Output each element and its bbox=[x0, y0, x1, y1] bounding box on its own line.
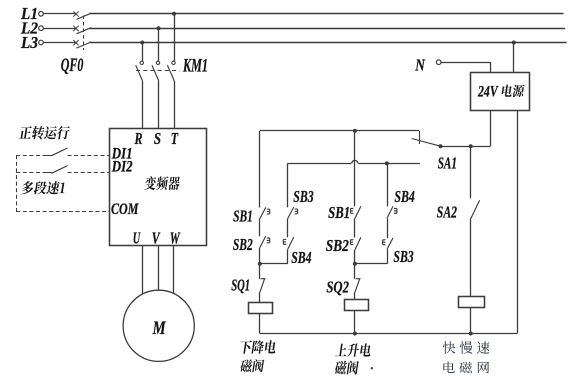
junction SA1 pivot bbox=[439, 144, 443, 148]
wire L1 tap down bbox=[174, 14, 176, 61]
contactor KM1 terminal x158.5 bbox=[156, 61, 159, 64]
breaker QF0 contact L2 bbox=[73, 26, 78, 31]
svg-text:SA1: SA1 bbox=[438, 153, 457, 172]
pushbutton SB1 (g2) bbox=[351, 206, 361, 218]
junction L3 to supply bbox=[512, 41, 516, 45]
label 上升电 bbox=[335, 343, 371, 357]
contactor KM1 terminal x142.3 bbox=[140, 61, 143, 64]
svg-text:N: N bbox=[415, 56, 426, 75]
label 磁阀 (descend) bbox=[240, 359, 264, 372]
junction L3 tap bbox=[140, 41, 144, 45]
wire g1 join bbox=[260, 263, 288, 265]
svg-text:SB2: SB2 bbox=[233, 235, 253, 254]
wire DI1 pivot bbox=[44, 155, 52, 157]
junction L2 tap bbox=[157, 26, 161, 30]
svg-text:SB1: SB1 bbox=[328, 203, 350, 222]
wire W to motor bbox=[173, 246, 175, 295]
junction g3 bottom bbox=[469, 332, 473, 336]
wire DI2 dashed right bbox=[68, 172, 110, 174]
wire KM1 to inverter x174 bbox=[174, 81, 176, 129]
terminal N bbox=[436, 60, 441, 65]
wire g2 right col mid bbox=[387, 218, 389, 238]
svg-text:SB4: SB4 bbox=[394, 187, 414, 206]
wire SA1 node bbox=[441, 146, 491, 148]
24V supply box bbox=[471, 73, 530, 111]
svg-text:24V: 24V bbox=[477, 84, 499, 101]
motor M bbox=[123, 290, 194, 361]
wire KM1 to inverter x142.3 bbox=[142, 81, 144, 129]
wire g2 right col low bbox=[387, 249, 389, 263]
wire g2 right col top bbox=[387, 163, 389, 206]
wire g1 to SQ1 bbox=[259, 264, 261, 279]
wire L2 lead-in bbox=[43, 28, 75, 30]
wire common dashed vertical bbox=[16, 155, 18, 212]
svg-text:SQ2: SQ2 bbox=[326, 278, 349, 297]
top control rail bbox=[260, 130, 419, 132]
wire g1 right col top bbox=[287, 163, 289, 207]
terminal L1 bbox=[39, 12, 44, 17]
wire KM1 to inverter x158.5 bbox=[158, 81, 160, 129]
wire COM dashed bbox=[16, 211, 109, 213]
svg-text:W: W bbox=[170, 228, 181, 247]
wire L1 lead-in bbox=[43, 13, 75, 15]
label 正转运行 bbox=[19, 126, 70, 139]
second rail right bbox=[358, 163, 420, 165]
svg-text:SB3: SB3 bbox=[393, 247, 414, 266]
wire DI2 pivot bbox=[44, 172, 52, 174]
svg-text:COM: COM bbox=[111, 201, 139, 218]
wire g2 left col mid bbox=[354, 218, 356, 237]
wire g2 join bbox=[355, 263, 387, 265]
wire 24V right output bbox=[517, 111, 519, 334]
svg-text:SB1: SB1 bbox=[233, 206, 253, 225]
label 电源 bbox=[502, 84, 525, 97]
breaker QF0 blade L3 bbox=[77, 42, 92, 48]
limit switch SQ1 bbox=[260, 279, 266, 293]
label 多段速1 bbox=[21, 181, 65, 194]
wire L3 to 24V box bbox=[513, 43, 515, 73]
svg-text:S: S bbox=[154, 129, 161, 148]
wire V to motor bbox=[158, 246, 160, 291]
coil ascend valve bbox=[345, 300, 369, 311]
wire g1 left col top bbox=[259, 131, 261, 208]
switch SA1 fixed contact bbox=[419, 131, 421, 144]
pushbutton SB4 (g2) bbox=[387, 206, 397, 218]
second rail crossover hop bbox=[352, 160, 358, 163]
label 变频器 bbox=[144, 176, 180, 190]
coil fast-slow valve bbox=[459, 297, 485, 308]
contactor KM1 blade x174 bbox=[167, 65, 174, 81]
terminal L3 bbox=[39, 40, 44, 45]
limit switch SQ2 bbox=[355, 279, 361, 293]
wire DI2 dashed left bbox=[16, 172, 46, 174]
svg-text:R: R bbox=[134, 129, 143, 148]
wire SQ2 to coil bbox=[354, 292, 356, 299]
contactor KM1 terminal x174 bbox=[172, 61, 175, 64]
second rail left bbox=[287, 163, 351, 165]
wire DI1 dashed right bbox=[68, 155, 110, 157]
svg-text:SB3: SB3 bbox=[293, 187, 314, 206]
contactor KM1 linkage bbox=[136, 70, 180, 72]
wire g2 to SQ2 bbox=[354, 264, 356, 279]
stray period mark bbox=[371, 367, 373, 369]
junction g2 columns bbox=[353, 262, 357, 266]
wire L2 bus bbox=[90, 28, 566, 30]
wire g3 col top bbox=[470, 146, 472, 198]
wire L2 tap down bbox=[158, 28, 160, 61]
wire L3 bus bbox=[90, 42, 567, 44]
wire g2 left col low bbox=[354, 250, 356, 264]
breaker QF0 blade L1 bbox=[77, 13, 92, 19]
wire DI1 dashed left bbox=[16, 155, 46, 157]
junction SA2 column tap bbox=[469, 144, 473, 148]
breaker QF0 contact L3 bbox=[73, 40, 78, 45]
wire coil3 to rail bbox=[470, 307, 472, 333]
junction top rail middle column bbox=[353, 129, 357, 133]
junction L1 tap bbox=[172, 12, 176, 16]
contactor KM1 blade x158.5 bbox=[152, 65, 159, 81]
svg-text:M: M bbox=[152, 318, 167, 339]
wire g1 right col low bbox=[287, 249, 289, 263]
label 快慢速 bbox=[443, 341, 490, 354]
pushbutton SB3 (g2) bbox=[383, 238, 393, 250]
junction g2 bottom bbox=[353, 332, 357, 336]
coil descend valve bbox=[249, 303, 273, 314]
svg-text:KM1: KM1 bbox=[182, 56, 208, 76]
wire g3 col low bbox=[470, 219, 472, 297]
bottom return rail bbox=[260, 333, 517, 335]
svg-text:U: U bbox=[133, 228, 141, 247]
wire coil1 to rail bbox=[259, 313, 261, 333]
wire g1 left col mid bbox=[259, 219, 261, 237]
wire coil2 to rail bbox=[354, 310, 356, 333]
switch blade DI2 bbox=[52, 166, 68, 174]
breaker QF0 linkage bbox=[83, 16, 85, 51]
pushbutton SB2 (g1) bbox=[260, 236, 270, 248]
wire g1 left col low bbox=[259, 248, 261, 264]
wire g2 left col top bbox=[354, 131, 356, 207]
switch SA2 blade bbox=[471, 200, 480, 218]
wire L3 lead-in bbox=[43, 42, 75, 44]
svg-text:L3: L3 bbox=[20, 33, 38, 52]
wire U to motor bbox=[142, 246, 144, 295]
breaker QF0 contact L1 bbox=[73, 11, 78, 16]
switch blade DI1 bbox=[52, 148, 68, 156]
pushbutton SB2 (g2) bbox=[351, 237, 361, 250]
breaker QF0 blade L2 bbox=[77, 28, 92, 34]
wire 24V left output bbox=[490, 111, 492, 147]
svg-text:SQ1: SQ1 bbox=[231, 276, 250, 295]
junction second rail right column bbox=[385, 161, 389, 165]
terminal L2 bbox=[39, 26, 44, 31]
wire g1 right col mid bbox=[287, 219, 289, 238]
wire L3 tap down bbox=[142, 43, 144, 62]
wire N to 24V box bbox=[442, 63, 491, 73]
contactor KM1 blade x142.3 bbox=[136, 65, 143, 81]
pushbutton SB4 (g1) bbox=[283, 237, 293, 249]
svg-text:QF0: QF0 bbox=[61, 55, 84, 76]
svg-text:SA2: SA2 bbox=[437, 203, 458, 222]
wire SQ1 to coil bbox=[259, 292, 261, 302]
label 下降电 bbox=[240, 340, 275, 353]
pushbutton SB3 (g1) bbox=[288, 207, 298, 219]
label 磁阀 (ascend) bbox=[335, 361, 359, 375]
svg-text:T: T bbox=[171, 129, 179, 148]
wire L1 bus bbox=[90, 13, 564, 15]
svg-text:SB2: SB2 bbox=[326, 236, 350, 255]
svg-text:DI2: DI2 bbox=[111, 158, 133, 175]
pushbutton SB1 (g1) bbox=[260, 207, 270, 218]
svg-text:SB4: SB4 bbox=[291, 248, 311, 267]
label 电磁网 bbox=[443, 362, 489, 374]
junction g1 columns bbox=[258, 262, 262, 266]
switch SA1 blade bbox=[412, 139, 441, 147]
inverter box bbox=[110, 129, 207, 246]
